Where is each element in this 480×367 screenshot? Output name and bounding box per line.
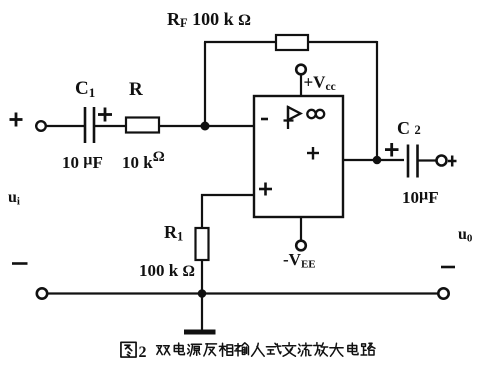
wire feedback left segment: [204, 41, 276, 43]
op-amp plus mark center: [307, 147, 319, 160]
svg-text:2: 2: [139, 344, 147, 361]
capacitor C1: [85, 107, 94, 143]
wire op-amp to -VEE terminal: [300, 217, 302, 241]
wire Vcc to op-amp: [300, 74, 302, 97]
wire bottom rail: [48, 292, 439, 294]
op-amp inverting input mark: [261, 118, 268, 121]
svg-text:100 k Ω: 100 k Ω: [139, 261, 195, 280]
resistor RF: [276, 35, 308, 50]
node u0 output terminal: [437, 156, 447, 166]
wire feedback down to output node: [376, 41, 378, 160]
svg-text:u0: u0: [458, 226, 473, 245]
op-amp amplifier symbol: [284, 106, 301, 129]
op-amp U1 body: [254, 96, 343, 217]
op-amp infinity gain mark: [307, 110, 324, 118]
wire feedback right segment: [308, 41, 377, 43]
node input + polarity label: [10, 113, 23, 127]
wire C1 to R: [95, 125, 126, 127]
capacitor C1 plus mark: [98, 108, 112, 122]
svg-text:R1: R1: [164, 222, 183, 244]
svg-text:R: R: [129, 79, 143, 100]
svg-text:C1: C1: [75, 78, 95, 100]
capacitor C2: [408, 145, 418, 178]
svg-text:ui: ui: [8, 189, 20, 208]
power +Vcc terminal: [296, 65, 306, 75]
node ground junction dot: [198, 289, 207, 298]
svg-text:RF 100 k Ω: RF 100 k Ω: [167, 9, 251, 30]
svg-text:+Vcc: +Vcc: [304, 73, 336, 94]
wire junction up to feedback: [204, 42, 206, 126]
node output junction dot: [373, 156, 382, 165]
node A junction dot: [201, 122, 210, 131]
node ui input terminal: [36, 121, 46, 131]
resistor R1: [196, 228, 209, 260]
wire op-amp non-inverting input left: [201, 194, 254, 196]
label ui minus: [12, 262, 28, 265]
caption figure 2 title: [121, 342, 375, 357]
svg-text:-VEE: -VEE: [283, 250, 316, 271]
ground: [184, 330, 216, 335]
wire input to C1: [46, 125, 84, 127]
node bottom-left terminal: [37, 288, 47, 298]
wire C2 to output terminal: [418, 159, 437, 161]
capacitor C2 plus mark: [385, 143, 399, 157]
wire R to op-amp inverting input: [159, 125, 254, 127]
output terminal plus mark: [448, 156, 457, 167]
svg-text:10 kΩ: 10 kΩ: [122, 149, 165, 172]
wire to ground: [201, 294, 203, 331]
svg-text:C 2: C 2: [397, 118, 421, 138]
svg-text:10 µF: 10 µF: [62, 152, 103, 173]
wire down to R1: [201, 194, 203, 228]
label u0 minus: [441, 266, 455, 269]
node bottom-right terminal: [438, 288, 448, 298]
op-amp non-inverting input mark: [259, 183, 272, 196]
resistor R: [126, 118, 159, 133]
svg-text:10µF: 10µF: [402, 187, 439, 208]
power -VEE terminal: [296, 241, 306, 251]
wire op-amp output: [343, 159, 404, 161]
wire R1 to ground rail: [201, 260, 203, 294]
